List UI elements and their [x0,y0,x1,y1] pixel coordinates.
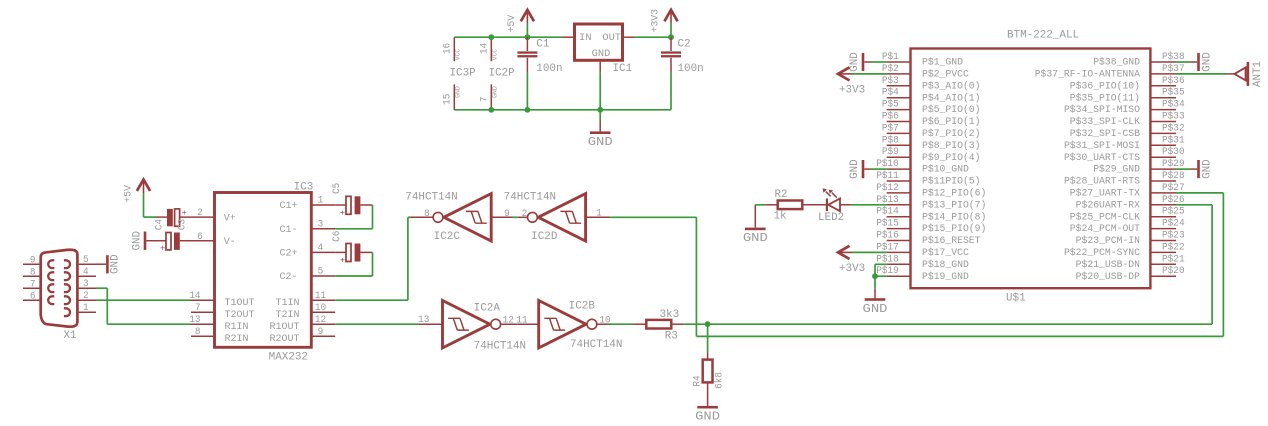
ground symbol GND at X1 pin 5 [96,263,106,265]
wire LED2 to P$13 [851,204,887,206]
svg-text:P$14: P$14 [876,206,899,217]
supply symbol +5V [521,10,534,21]
svg-text:P$9_PIO(4): P$9_PIO(4) [922,152,981,164]
svg-text:P$4_AIO(1): P$4_AIO(1) [922,92,981,104]
pin 8 of IC3 [191,335,215,337]
ground symbol GND under R4 [707,382,709,407]
svg-text:8: 8 [195,326,201,337]
svg-text:IC1: IC1 [613,63,633,75]
wire P$27 stub to net [1176,192,1179,194]
svg-text:BTM-222_ALL: BTM-222_ALL [1007,29,1079,41]
svg-text:GND: GND [592,49,611,60]
svg-text:P$10_GND: P$10_GND [922,164,969,176]
wire [1211,205,1213,324]
pin P$19 of U$1 [887,275,911,277]
svg-text:P$1: P$1 [882,51,899,62]
ic MAX232 IC3 body [215,193,312,348]
svg-text:11: 11 [315,290,326,301]
svg-text:GND: GND [849,159,861,179]
pin 10 of IC2B [597,323,609,325]
svg-text:1: 1 [83,302,89,313]
resistor R4 6k8 [707,324,709,352]
ground symbol GND at R2 [755,204,765,206]
svg-text:P$28_UART-RTS: P$28_UART-RTS [1064,176,1140,188]
pin 7 of IC3 [191,311,215,313]
pin P$1 of U$1 [887,61,911,63]
resistor R2 1k [765,204,777,206]
svg-text:74HCT14N: 74HCT14N [570,339,622,351]
socket contact [64,296,70,304]
svg-text:8: 8 [424,208,430,219]
socket contact [48,296,54,304]
inverter IC2A (74HCT14N) [419,323,443,325]
svg-text:P$9: P$9 [882,146,899,157]
svg-text:P$21: P$21 [1162,253,1185,264]
svg-text:P$6: P$6 [882,111,899,122]
led LED2 [826,199,828,212]
pin 2 of X1 [77,299,96,301]
wire UART-TX net [610,216,697,218]
svg-text:P$2: P$2 [882,63,899,74]
wire R1OUT to IC2A [335,323,419,325]
pin 11 of IC3 [311,299,335,301]
svg-text:P$10: P$10 [876,158,899,169]
svg-text:C5: C5 [331,183,342,194]
socket contact [48,260,54,268]
svg-text:VCC: VCC [454,49,462,61]
pin P$28 of U$1 [1150,180,1176,182]
pin P$29 of U$1 [1150,168,1176,170]
svg-text:IN: IN [579,33,591,44]
pin P$16 of U$1 [887,240,911,242]
pin 12 of IC3 [311,323,335,325]
svg-text:+: + [340,255,345,265]
svg-text:P$34: P$34 [1162,99,1185,110]
ground symbol GND at P$29 [1190,168,1197,170]
pin 4 of X1 [77,275,96,277]
svg-text:C1+: C1+ [280,201,298,212]
svg-text:P$17_VCC: P$17_VCC [922,247,969,259]
svg-text:P$26UART-RX: P$26UART-RX [1076,199,1140,211]
pin 12 of IC2A [501,323,518,325]
capacitor C4 [156,216,167,218]
svg-text:12: 12 [315,314,326,325]
svg-text:C3: C3 [176,219,187,230]
svg-text:13: 13 [418,314,429,325]
svg-text:P$2_PVCC: P$2_PVCC [922,69,969,81]
svg-text:P$5: P$5 [882,99,899,110]
svg-text:C2+: C2+ [280,249,298,260]
svg-text:P$8: P$8 [882,134,899,145]
svg-text:4: 4 [318,242,324,253]
pin P$33 of U$1 [1150,121,1176,123]
wire P$18/P$19 to GND [875,263,887,265]
svg-text:P$38: P$38 [1162,51,1185,62]
inverter IC2C (74HCT14N) [411,216,434,218]
wire [143,193,145,217]
pin P$11 of U$1 [887,180,911,182]
svg-text:P$16_RESET: P$16_RESET [922,235,981,247]
connector X1 (DB9) body [41,250,78,327]
svg-text:P$30: P$30 [1162,146,1185,157]
pin P$32 of U$1 [1150,132,1176,134]
svg-text:GND: GND [743,231,768,245]
pin P$24 of U$1 [1150,228,1176,230]
pin 9 of X1 [23,263,41,265]
svg-text:X1: X1 [64,330,77,342]
svg-text:R2IN: R2IN [225,334,249,345]
wire C5 to C1- [372,205,374,229]
svg-text:GND: GND [109,254,121,274]
pin 6 of X1 [23,299,41,301]
module BTM-222_ALL U$1 body [911,49,1151,289]
junction [525,34,531,40]
wire C6 to C2- [372,252,374,276]
pin P$14 of U$1 [887,216,911,218]
svg-text:P$12: P$12 [876,182,899,193]
pin P$4 of U$1 [887,97,911,99]
pin P$8 of U$1 [887,144,911,146]
svg-text:P$13_PIO(7): P$13_PIO(7) [922,199,986,211]
svg-text:74HCT14N: 74HCT14N [474,340,526,352]
svg-text:P$7_PIO(2): P$7_PIO(2) [922,128,981,140]
wire UART-RX net [684,323,1212,325]
svg-text:P$25_PCM-CLK: P$25_PCM-CLK [1070,211,1141,223]
svg-text:GND: GND [1201,52,1213,72]
svg-text:+5V: +5V [507,14,518,33]
pin P$2 of U$1 [887,73,911,75]
svg-text:P$3_AIO(0): P$3_AIO(0) [922,80,981,92]
pin P$12 of U$1 [887,192,911,194]
svg-text:16: 16 [442,43,453,54]
svg-text:C1: C1 [536,39,549,51]
pin P$23 of U$1 [1150,240,1176,242]
pin P$22 of U$1 [1150,251,1176,253]
inverter IC2D (74HCT14N) [518,216,529,218]
svg-text:P$35: P$35 [1162,87,1185,98]
svg-text:1k: 1k [774,210,787,222]
pin P$6 of U$1 [887,121,911,123]
svg-text:P$18: P$18 [876,253,899,264]
svg-text:P$19: P$19 [876,265,899,276]
svg-text:P$30_UART-CTS: P$30_UART-CTS [1064,152,1140,164]
svg-text:3k3: 3k3 [659,309,679,321]
svg-text:P$8_PIO(3): P$8_PIO(3) [922,140,981,152]
ground symbol GND under IC1 [599,110,601,121]
pin 5 of X1 [77,263,96,265]
pin P$31 of U$1 [1150,144,1176,146]
svg-text:GND: GND [695,410,720,424]
pin P$27 of U$1 [1150,192,1176,194]
svg-text:P$21_USB-DN: P$21_USB-DN [1076,259,1140,271]
socket contact [48,272,54,280]
pin IC1 GND lead [599,60,601,72]
wire P$26 stub to net [1176,204,1179,206]
svg-text:9: 9 [30,255,36,266]
svg-text:P$12_PIO(6): P$12_PIO(6) [922,188,986,200]
pin 13 of IC3 [191,323,215,325]
svg-text:IC2P: IC2P [489,68,515,80]
socket contact [64,284,70,292]
pin 14 of IC3 [191,299,215,301]
inverter IC2B (74HCT14N) [518,323,539,325]
junction [525,107,531,113]
wire [635,36,672,38]
junction [872,273,878,279]
svg-text:P$4: P$4 [882,87,899,98]
svg-text:P$29: P$29 [1162,158,1185,169]
svg-text:IC3P: IC3P [450,68,476,80]
pin 3 of IC3 [311,228,335,230]
svg-text:+: + [340,208,345,218]
svg-text:IC2D: IC2D [531,231,557,243]
svg-text:IC2C: IC2C [434,231,460,243]
svg-text:OUT: OUT [602,33,621,44]
pin P$25 of U$1 [1150,216,1176,218]
capacitor C6 [335,251,346,253]
svg-text:8: 8 [30,267,36,278]
svg-text:P$28: P$28 [1162,170,1185,181]
svg-text:P$27: P$27 [1162,182,1185,193]
supply symbol +3V3 at P$17 [838,246,850,259]
pin 7 of X1 [23,287,41,289]
svg-text:GND: GND [588,135,613,149]
pin 3 of X1 [77,287,96,289]
svg-text:GND: GND [131,231,143,251]
svg-text:P$14_PIO(8): P$14_PIO(8) [922,211,986,223]
svg-text:2: 2 [83,290,89,301]
svg-text:GND: GND [1201,159,1213,179]
capacitor C5 [335,204,346,206]
pin P$30 of U$1 [1150,156,1176,158]
svg-text:+: + [160,243,165,253]
svg-text:P$24: P$24 [1162,218,1185,229]
svg-text:P$32: P$32 [1162,122,1185,133]
svg-text:P$15: P$15 [876,218,899,229]
svg-text:P$25: P$25 [1162,206,1185,217]
svg-text:P$1_GND: P$1_GND [922,57,963,69]
svg-text:MAX232: MAX232 [269,352,308,364]
pin 10 of IC3 [311,311,335,313]
socket contact [48,284,54,292]
svg-text:2: 2 [522,208,528,219]
power net +5V top wire [454,36,562,38]
voltage regulator IC1 [563,36,575,38]
svg-text:P$23_PCM-IN: P$23_PCM-IN [1076,235,1140,247]
supply symbol +5V at MAX232 [137,179,150,191]
svg-text:13: 13 [189,314,200,325]
svg-text:P$22: P$22 [1162,241,1185,252]
svg-text:9: 9 [318,326,324,337]
pin P$3 of U$1 [887,85,911,87]
pin 5 of IC3 [311,275,335,277]
svg-text:P$17: P$17 [876,241,899,252]
svg-text:C4: C4 [154,219,165,230]
svg-text:P$23: P$23 [1162,230,1185,241]
pin P$35 of U$1 [1150,97,1176,99]
svg-text:P$26: P$26 [1162,194,1185,205]
pin P$13 of U$1 [887,204,911,206]
svg-text:T1OUT: T1OUT [225,298,255,309]
pin MAX232 V+ pin 2 [180,216,215,218]
wire X1 pin2 to T1OUT [96,299,191,301]
svg-text:U$1: U$1 [1006,293,1026,305]
svg-text:T2OUT: T2OUT [225,310,255,321]
svg-text:100n: 100n [536,63,562,75]
svg-text:P$18_GND: P$18_GND [922,259,969,271]
pin P$20 of U$1 [1150,275,1176,277]
ground symbol GND at P$1 [862,53,865,71]
svg-text:P$7: P$7 [882,122,899,133]
svg-text:P$5_PIO(0): P$5_PIO(0) [922,104,981,116]
svg-text:P$11: P$11 [876,170,899,181]
svg-text:GND: GND [454,86,462,98]
pin P$7 of U$1 [887,132,911,134]
svg-text:3: 3 [83,278,89,289]
pin P$36 of U$1 [1150,85,1176,87]
junction [597,107,603,113]
pin P$17 of U$1 [887,251,911,253]
svg-text:P$36: P$36 [1162,75,1185,86]
capacitor C2 [670,37,672,51]
svg-text:T1IN: T1IN [276,298,300,309]
socket contact [64,260,70,268]
svg-text:2: 2 [197,207,203,218]
power net GND bottom wire [454,109,671,111]
svg-text:T2IN: T2IN [276,310,300,321]
svg-text:C2-: C2- [280,272,298,283]
svg-text:P$27_UART-TX: P$27_UART-TX [1070,188,1140,200]
wire [610,323,635,325]
capacitor C1 [526,37,528,51]
pin P$38 of U$1 [1150,61,1176,63]
svg-text:P$6_PIO(1): P$6_PIO(1) [922,116,981,128]
svg-text:+3V3: +3V3 [839,263,865,275]
svg-text:C6: C6 [331,230,342,241]
ground symbol GND at C3 [144,232,147,250]
svg-text:P$19_GND: P$19_GND [922,271,969,283]
wire T1IN net [335,299,408,301]
svg-text:1: 1 [318,195,324,206]
svg-text:74HCT14N: 74HCT14N [405,191,457,203]
svg-text:P$32_SPI-CSB: P$32_SPI-CSB [1070,128,1140,140]
svg-text:IC2A: IC2A [474,303,501,315]
svg-text:P$11PIO(5): P$11PIO(5) [922,176,981,188]
svg-text:V+: V+ [224,213,236,224]
pin 9 of IC2C [491,216,512,218]
svg-text:P$24_PCM-OUT: P$24_PCM-OUT [1070,223,1140,235]
pin MAX232 V- pin 6 [180,240,215,242]
pin 4 of IC3 [311,251,335,253]
svg-text:R3: R3 [665,330,678,342]
wire X1 pin3 to R1IN [96,287,107,289]
resistor R3 3k3 [634,323,646,325]
svg-text:P$33_SPI-CLK: P$33_SPI-CLK [1070,116,1141,128]
svg-text:+3V3: +3V3 [651,9,662,33]
pin 1 of IC2D [586,216,610,218]
svg-text:VCC: VCC [491,49,499,61]
socket contact [64,308,70,316]
svg-text:P$33: P$33 [1162,111,1185,122]
svg-text:P$15_PIO(9): P$15_PIO(9) [922,223,986,235]
junction [705,321,711,327]
pin P$21 of U$1 [1150,263,1176,265]
svg-text:3: 3 [318,218,324,229]
svg-text:R4: R4 [691,375,702,386]
svg-text:5: 5 [318,266,324,277]
ground symbol GND at P$19 [874,276,876,289]
svg-text:P$37_RF-IO-ANTENNA: P$37_RF-IO-ANTENNA [1035,69,1141,81]
capacitor C3 [166,233,171,250]
junction [488,34,494,40]
pin P$9 of U$1 [887,156,911,158]
svg-text:P$20_USB-DP: P$20_USB-DP [1076,271,1140,283]
svg-text:R2OUT: R2OUT [270,334,300,345]
svg-text:P$34_SPI-MISO: P$34_SPI-MISO [1064,104,1140,116]
svg-text:7: 7 [195,302,201,313]
pin P$37 of U$1 [1150,73,1176,75]
ground symbol GND at P$38 [1190,61,1197,63]
svg-text:74HCT14N: 74HCT14N [504,191,556,203]
power gate IC3P (MAX232 supply pins) [453,37,455,61]
svg-text:7: 7 [479,96,490,102]
svg-text:C2: C2 [678,39,691,51]
svg-text:100n: 100n [678,63,704,75]
svg-text:R1OUT: R1OUT [270,322,300,333]
supply symbol +3V3 [664,10,677,21]
wire [513,216,518,218]
svg-text:4: 4 [83,266,89,277]
svg-text:P$22_PCM-SYNC: P$22_PCM-SYNC [1064,247,1140,259]
svg-text:15: 15 [442,94,453,105]
pin 9 of IC3 [311,335,335,337]
svg-text:5: 5 [83,254,89,265]
svg-text:R1IN: R1IN [225,322,249,333]
pin P$15 of U$1 [887,228,911,230]
power gate IC2P (74HCT14 supply pins) [490,37,492,61]
svg-text:+5V: +5V [123,184,134,203]
pin 8 of X1 [23,275,41,277]
svg-text:C1-: C1- [280,225,298,236]
supply symbol +3V3 at P$2 [838,67,850,80]
pin 1 of X1 [77,311,96,313]
svg-text:ANT1: ANT1 [1252,61,1264,87]
pin P$34 of U$1 [1150,109,1176,111]
pin P$18 of U$1 [887,263,911,265]
svg-text:6k8: 6k8 [714,372,725,389]
pin P$10 of U$1 [887,168,911,170]
svg-text:7: 7 [30,279,36,290]
svg-text:P$35_PIO(11): P$35_PIO(11) [1070,92,1140,104]
svg-text:6: 6 [197,231,203,242]
svg-text:P$29_GND: P$29_GND [1093,164,1140,176]
pin P$5 of U$1 [887,109,911,111]
pin 1 of IC3 [311,204,335,206]
svg-text:GND: GND [863,302,888,316]
svg-text:P$13: P$13 [876,194,899,205]
svg-text:P$37: P$37 [1162,63,1185,74]
svg-text:P$31: P$31 [1162,134,1185,145]
svg-text:14: 14 [189,290,200,301]
svg-text:6: 6 [30,291,36,302]
svg-text:R2: R2 [775,189,788,201]
svg-text:14: 14 [479,43,490,54]
svg-text:LED2: LED2 [818,212,844,224]
svg-text:P$3: P$3 [882,75,899,86]
pin P$26 of U$1 [1150,204,1176,206]
svg-text:P$31_SPI-MOSI: P$31_SPI-MOSI [1064,140,1140,152]
svg-text:GND: GND [849,52,861,72]
